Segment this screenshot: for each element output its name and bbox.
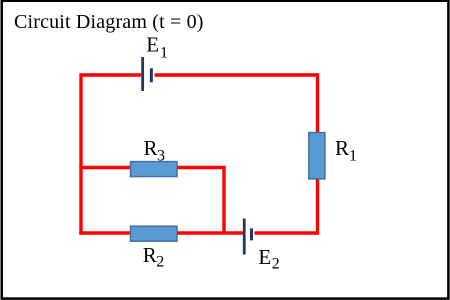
svg-text:E: E [258,245,271,269]
svg-text:R: R [335,136,349,160]
svg-text:1: 1 [349,147,357,164]
svg-text:Circuit Diagram (t = 0): Circuit Diagram (t = 0) [14,11,204,33]
svg-text:R: R [144,136,158,160]
svg-text:3: 3 [157,148,165,165]
svg-text:R: R [143,243,157,267]
svg-text:E: E [146,33,159,57]
svg-text:1: 1 [160,45,168,62]
svg-text:2: 2 [156,254,164,271]
svg-text:2: 2 [272,256,280,273]
